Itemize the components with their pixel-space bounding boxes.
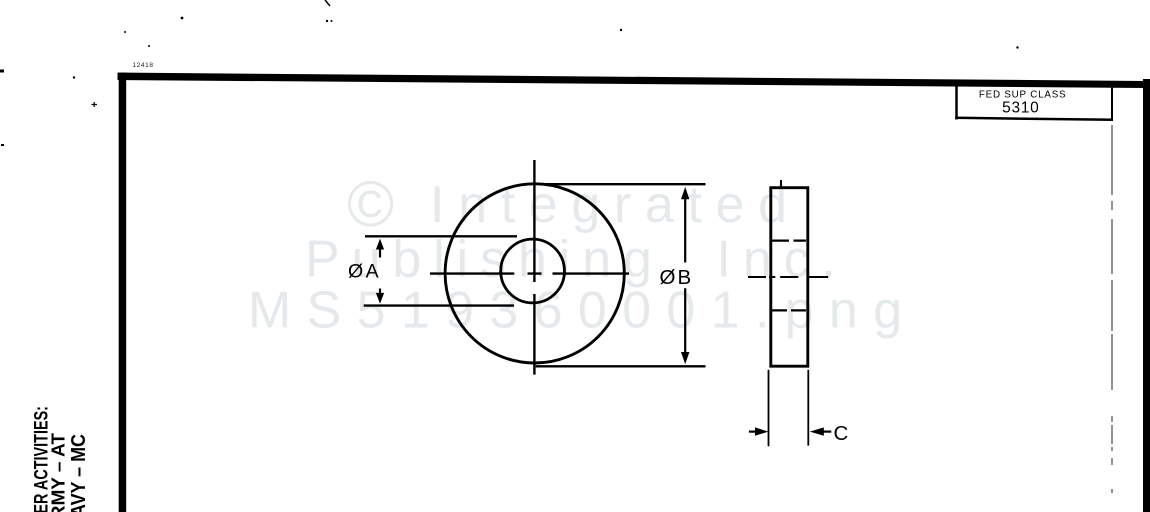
washer inner circle (hole) xyxy=(501,239,565,303)
dimension B top extension line xyxy=(540,183,706,185)
vertical centerline xyxy=(533,160,535,375)
svg-text:NAVY – MC: NAVY – MC xyxy=(67,434,90,512)
dimension C right arrow xyxy=(810,427,824,435)
top border of drawing frame xyxy=(118,73,1150,88)
dimension B bottom extension line xyxy=(536,365,706,367)
dimension A arrow up xyxy=(376,239,384,250)
dimension B arrow down xyxy=(681,352,689,364)
svg-text:ARMY – AT: ARMY – AT xyxy=(47,432,68,512)
svg-text:©: © xyxy=(347,168,394,240)
FED SUP CLASS box left line xyxy=(955,85,958,120)
svg-text:ØB: ØB xyxy=(660,266,694,289)
dimension A bottom extension line xyxy=(364,304,514,306)
svg-text:12418: 12418 xyxy=(133,62,154,69)
side view hidden line upper xyxy=(772,240,806,242)
svg-text:ØA: ØA xyxy=(348,261,381,283)
side view left extension line xyxy=(768,370,770,447)
right border of drawing frame xyxy=(1143,79,1150,512)
dimension A top extension line xyxy=(365,235,517,237)
side view hidden line lower xyxy=(772,309,806,311)
FED SUP CLASS box right line xyxy=(1111,85,1113,120)
horizontal centerline xyxy=(430,272,629,274)
dashed vertical line below FED box xyxy=(1111,125,1113,493)
left border of drawing frame xyxy=(119,73,127,512)
svg-text:5310: 5310 xyxy=(1002,100,1039,117)
side view right extension line xyxy=(807,370,809,446)
washer outer circle xyxy=(445,184,624,363)
dimension C left arrow xyxy=(749,431,756,433)
side view top stub mark xyxy=(780,180,782,189)
FED SUP CLASS box bottom line xyxy=(955,118,1113,120)
svg-text:C: C xyxy=(834,422,849,445)
dimension A arrow down xyxy=(376,293,384,304)
side view centerline xyxy=(748,276,828,278)
dimension B arrow up xyxy=(681,187,689,199)
side view rectangle xyxy=(771,188,808,367)
noise specks xyxy=(181,17,184,20)
